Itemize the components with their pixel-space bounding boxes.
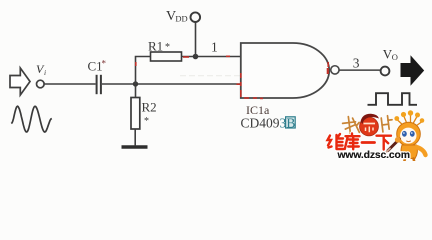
watermark: red text 维库一下: [328, 134, 392, 150]
svg-text:3: 3: [353, 55, 360, 70]
下: [377, 136, 392, 150]
resistor R1: [151, 52, 182, 61]
watermark: mascot body: [401, 145, 417, 159]
watermark: mascot head: [397, 122, 421, 146]
output block arrow (solid): [401, 57, 424, 85]
svg-text:*: *: [144, 116, 149, 127]
wire VDD down: [195, 22, 197, 57]
svg-text:DD: DD: [175, 14, 187, 24]
watermark: outlined char 找: [342, 115, 361, 136]
wire R2 to ground: [134, 129, 136, 145]
input terminal circle: [37, 80, 45, 88]
svg-text:*: *: [165, 42, 170, 53]
junction node B: [193, 54, 199, 60]
wire input to C1: [44, 83, 95, 85]
resistor R2: [131, 98, 140, 130]
VDD terminal circle: [191, 12, 201, 22]
wire gate output to Vo: [339, 69, 380, 71]
faint scan artifact line: [180, 75, 312, 77]
一: [362, 141, 375, 144]
square wave symbol: [368, 93, 418, 105]
watermark: outlined char 片: [381, 115, 393, 132]
库: [345, 134, 360, 150]
wire C1 to gate pin2: [102, 83, 241, 85]
svg-text:R2: R2: [142, 100, 157, 115]
Vo terminal circle: [381, 67, 390, 76]
input block arrow: [10, 68, 30, 95]
维: [328, 136, 332, 148]
output bubble: [331, 66, 339, 74]
wire junction to R2: [135, 86, 137, 98]
red artifact dashes on gate left edge: [136, 56, 328, 98]
NAND gate IC1a body: [241, 43, 329, 98]
watermark: mascot crown: [394, 110, 424, 127]
sine wave symbol: [11, 106, 52, 132]
svg-text:C1: C1: [88, 59, 103, 74]
svg-text:B: B: [286, 115, 295, 130]
wire junction up to R1: [136, 57, 151, 85]
capacitor C1: [96, 75, 98, 94]
svg-text:www.dzsc.com: www.dzsc.com: [337, 150, 410, 161]
svg-text:1: 1: [211, 40, 218, 55]
svg-text:CD4093: CD4093: [241, 116, 287, 131]
junction node A: [133, 81, 138, 86]
ground: [122, 145, 148, 149]
svg-text:*: *: [102, 59, 107, 69]
watermark: red ball (stylized 芯): [360, 117, 379, 136]
svg-text:R1: R1: [148, 39, 163, 54]
svg-text:i: i: [44, 68, 46, 77]
watermark: pen in mascot hand: [388, 139, 400, 151]
svg-text:O: O: [392, 52, 398, 62]
wire R1 to gate pin1: [182, 56, 241, 58]
